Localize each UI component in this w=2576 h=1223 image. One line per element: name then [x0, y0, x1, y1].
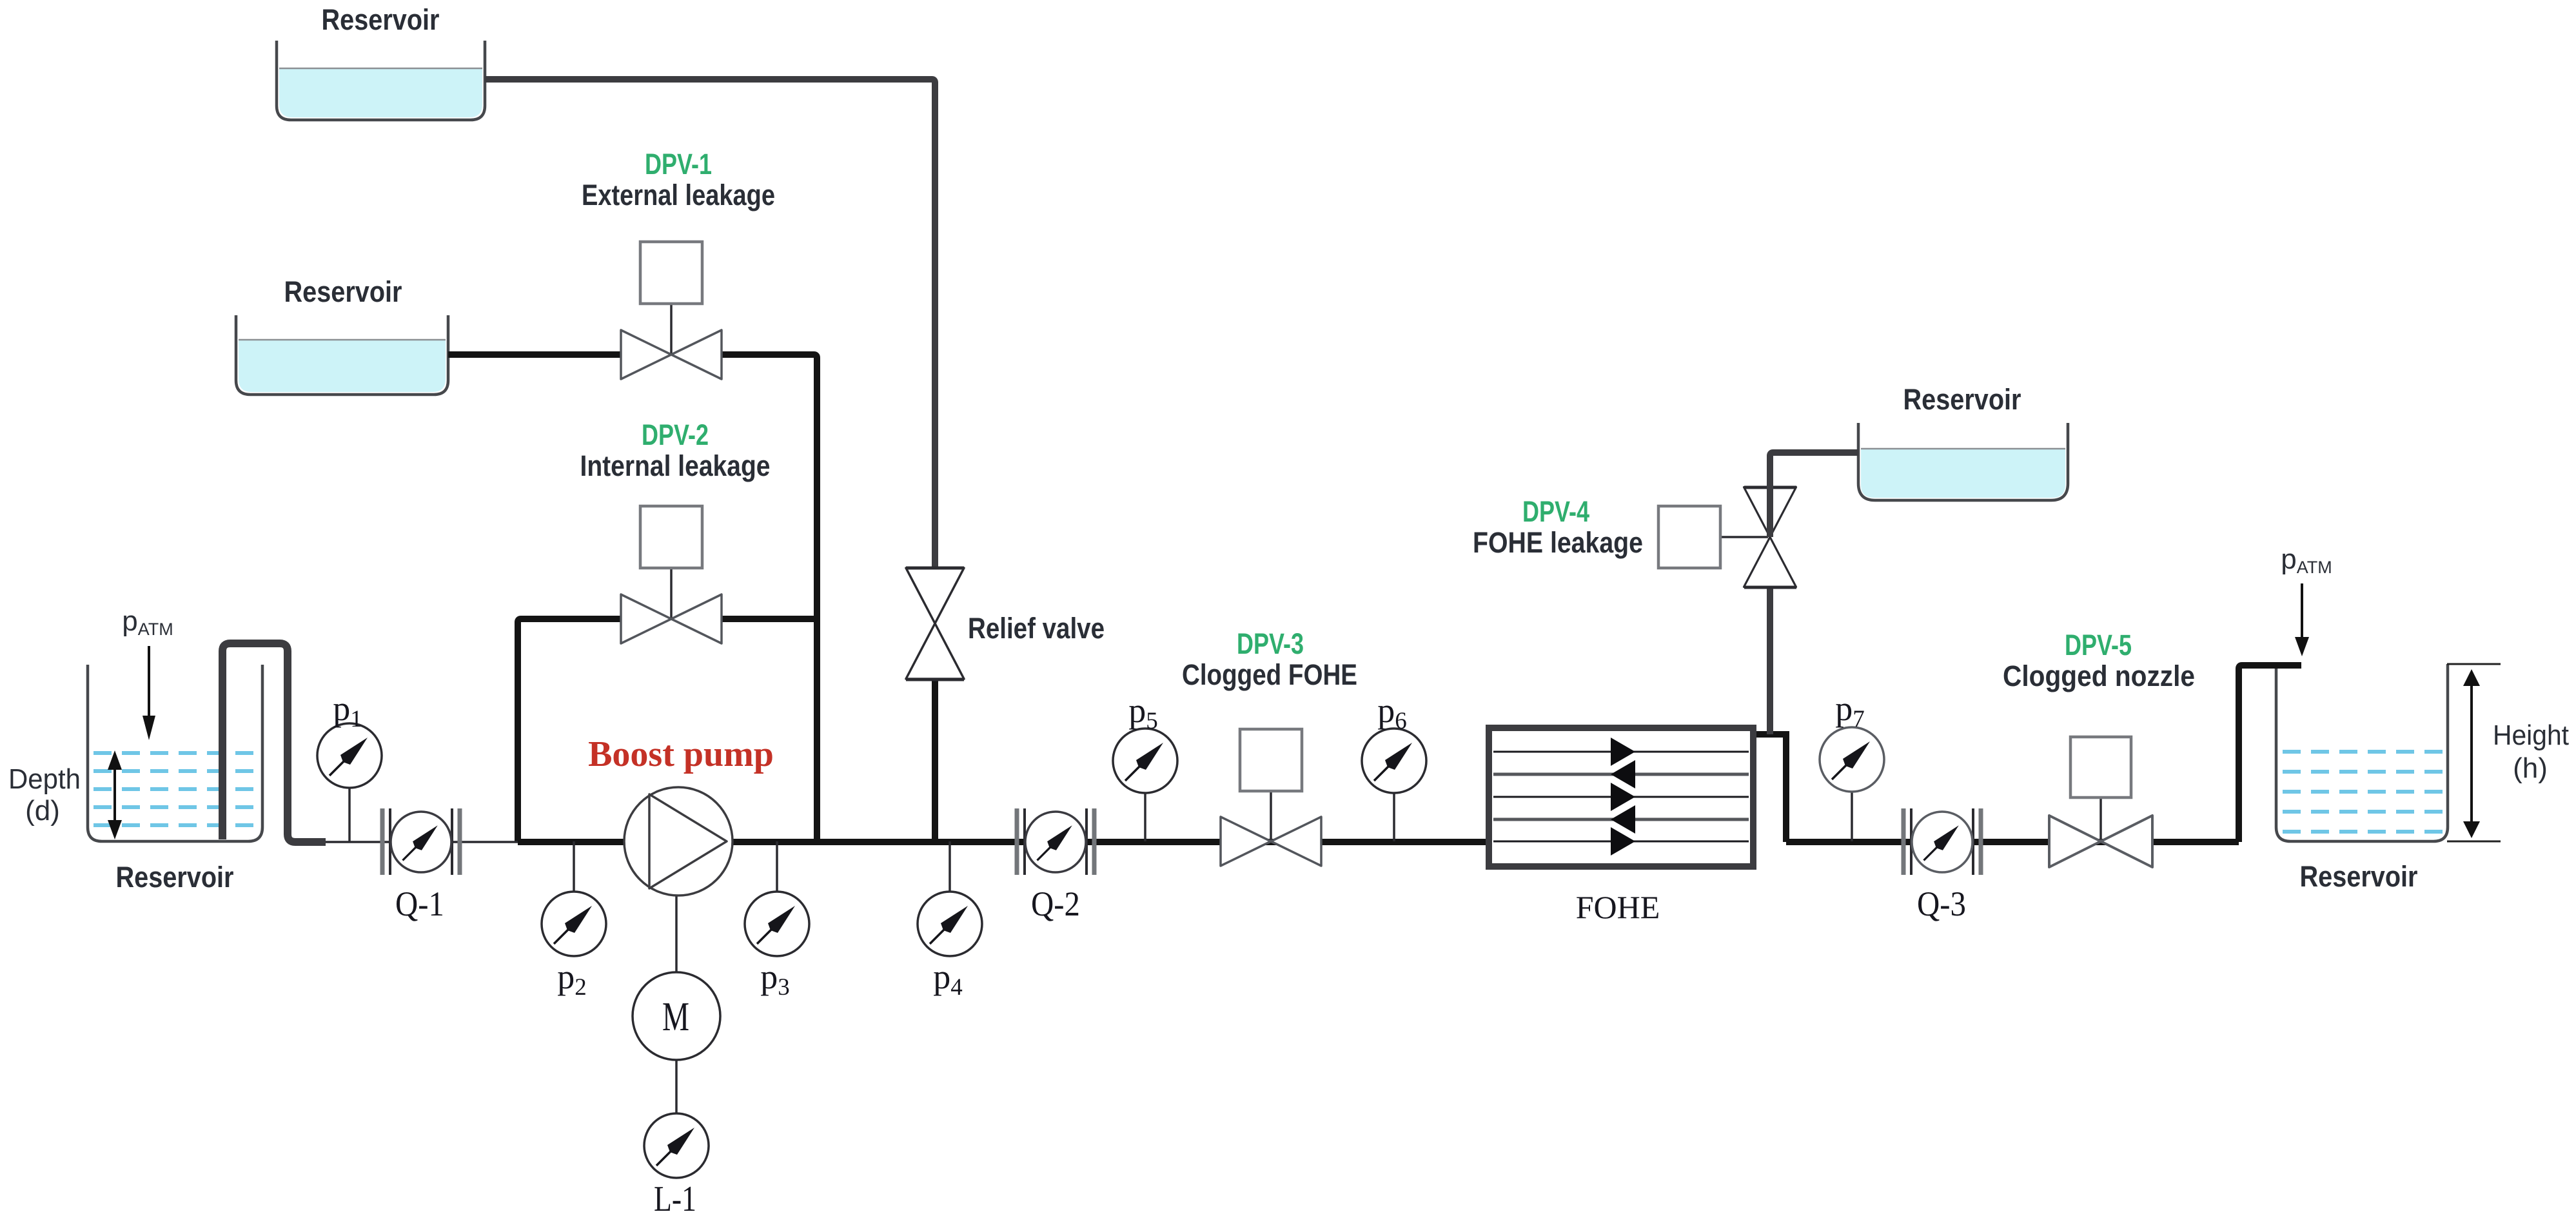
svg-text:DPV-1: DPV-1	[645, 148, 712, 181]
svg-text:Reservoir: Reservoir	[322, 3, 440, 36]
svg-text:Reservoir: Reservoir	[2300, 860, 2418, 893]
svg-text:DPV-3: DPV-3	[1237, 627, 1304, 660]
svg-text:L-1: L-1	[654, 1179, 696, 1219]
svg-text:Boost pump: Boost pump	[588, 734, 774, 774]
svg-text:(d): (d)	[25, 795, 60, 827]
svg-text:FOHE: FOHE	[1576, 889, 1660, 925]
svg-text:Clogged nozzle: Clogged nozzle	[2003, 660, 2195, 692]
svg-text:pATM: pATM	[122, 605, 173, 639]
svg-text:M: M	[662, 993, 689, 1039]
svg-text:Depth: Depth	[8, 763, 81, 795]
svg-text:External leakage: External leakage	[582, 179, 775, 211]
svg-text:Q-3: Q-3	[1917, 885, 1966, 923]
svg-text:p6: p6	[1377, 691, 1407, 734]
svg-text:Reservoir: Reservoir	[116, 861, 234, 894]
svg-text:DPV-2: DPV-2	[642, 418, 709, 451]
svg-text:Q-2: Q-2	[1031, 885, 1080, 923]
svg-text:p5: p5	[1128, 691, 1158, 734]
svg-text:p4: p4	[933, 957, 963, 1001]
svg-text:Internal leakage: Internal leakage	[580, 449, 771, 482]
svg-text:pATM: pATM	[2281, 543, 2332, 577]
svg-text:Height: Height	[2493, 719, 2569, 751]
svg-text:p3: p3	[760, 957, 790, 1001]
svg-text:Reservoir: Reservoir	[1903, 383, 2021, 416]
svg-text:Reservoir: Reservoir	[284, 275, 402, 308]
svg-text:Q-1: Q-1	[395, 885, 444, 923]
svg-text:FOHE leakage: FOHE leakage	[1473, 526, 1643, 559]
svg-text:(h): (h)	[2513, 752, 2548, 784]
svg-text:p2: p2	[557, 957, 587, 1001]
svg-text:p1: p1	[333, 689, 362, 732]
svg-text:DPV-5: DPV-5	[2065, 629, 2132, 661]
svg-text:DPV-4: DPV-4	[1522, 495, 1589, 528]
svg-text:Clogged FOHE: Clogged FOHE	[1182, 658, 1357, 691]
svg-text:p7: p7	[1835, 689, 1865, 732]
svg-text:Relief valve: Relief valve	[968, 612, 1105, 645]
